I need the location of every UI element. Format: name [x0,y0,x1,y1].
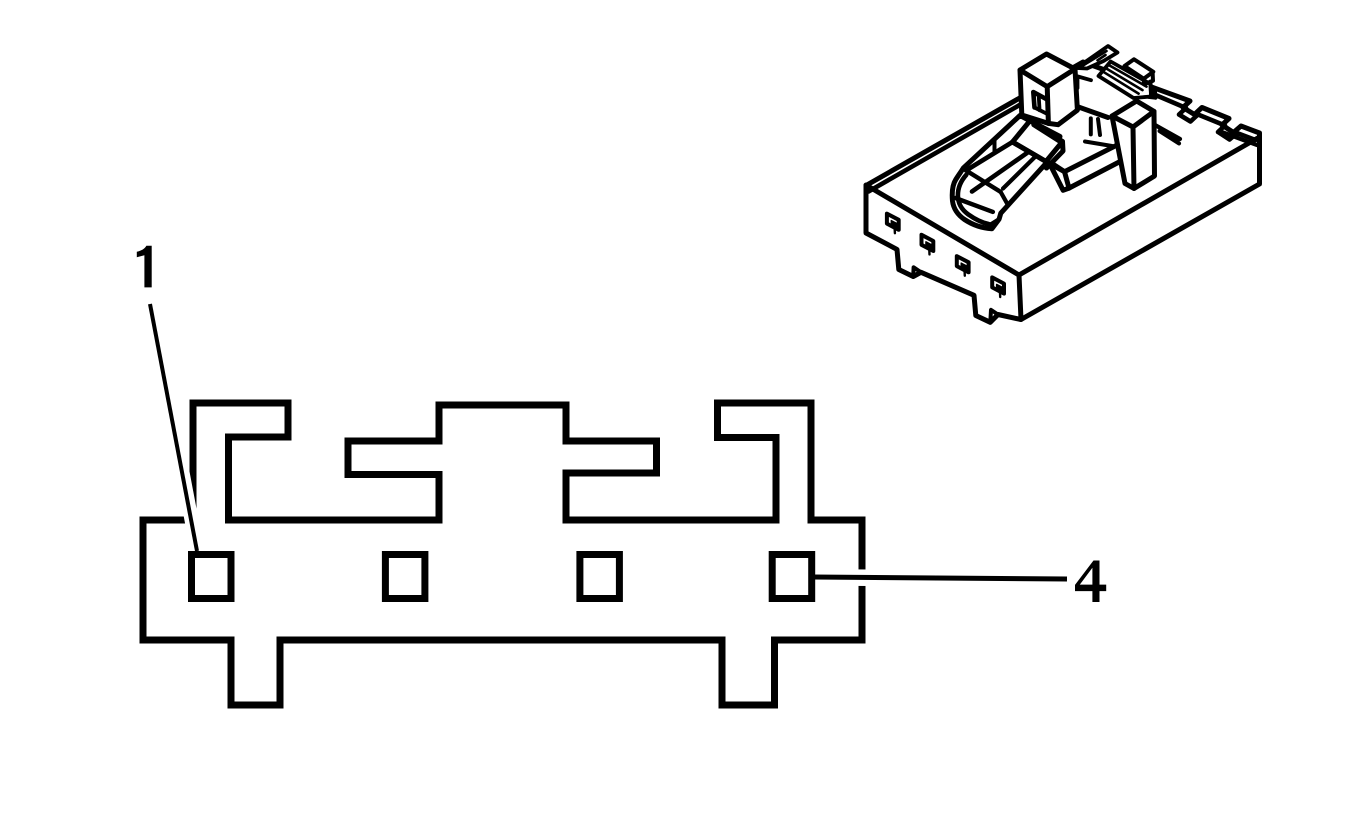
lock arm inner arc [958,175,992,225]
pin hole 3 [957,256,969,272]
pin hole 1 [887,214,899,230]
arch opening [1033,92,1048,108]
latch end tab [1125,59,1154,78]
latch beak [1077,46,1118,69]
lock arm Q tail [1048,153,1060,161]
connector face view outline [143,403,862,705]
latch block edges [1013,142,1065,172]
label 4 [1075,561,1106,603]
arch tab [1020,54,1077,125]
leader line to terminal 4 [813,577,1067,579]
lock arm tip [991,219,1000,224]
lock arm [952,116,1060,229]
shroud plate back edge [1058,100,1108,118]
lock arm roll edges [955,171,1000,212]
isometric connector view [866,46,1260,322]
lock arm corner edge [1001,192,1008,204]
leader 1 white casing [150,300,197,549]
latch tab hooks [1149,82,1156,98]
shroud plate seam [1085,142,1112,147]
terminal 3 cavity [580,555,620,599]
terminal 2 cavity [385,555,425,599]
iso rim inner edge left [869,103,1025,192]
terminal 1 cavity [192,555,232,599]
pin hole 4 [992,277,1004,293]
lock arm crest seam [993,140,997,153]
latch tab strip [1144,72,1153,84]
shroud plate strip bottom edge [1069,161,1122,189]
lock arm crest crease [966,142,1013,171]
right block top edges [1112,111,1154,188]
arch back leg [1035,96,1048,114]
leader line to terminal 1 [150,304,197,551]
iso foot notches [913,267,998,322]
leader 4 white casing [830,578,1067,580]
latch block on arm [1013,121,1064,168]
latch beak folds [1083,51,1107,66]
right block post [1112,101,1155,189]
iso rim notch wall bases [1155,125,1257,145]
pin hole 2 [922,235,934,251]
shroud plate front top edge [1065,143,1121,172]
iso body silhouette [866,62,1260,322]
arch tab edges [1020,69,1075,123]
pin hole tails [895,229,1001,297]
serrated latch band [1099,62,1152,99]
latch supports [1078,77,1092,89]
label 1 [137,246,152,288]
lock arm front lower edge [1003,150,1042,189]
iso rim inner zigzag [1152,94,1256,141]
shroud plate [1048,100,1152,190]
iso front-right corner vertical [1019,275,1021,320]
iso top front edge [866,185,1019,275]
shroud plate cap [1048,161,1069,190]
shroud support verticals [1091,118,1100,135]
iso right end top edge [1019,137,1260,275]
latch block bevel [1030,121,1063,142]
latch ribs [1103,65,1146,94]
terminal 4 cavity [772,555,812,599]
lock arm front top edge [972,141,1044,192]
